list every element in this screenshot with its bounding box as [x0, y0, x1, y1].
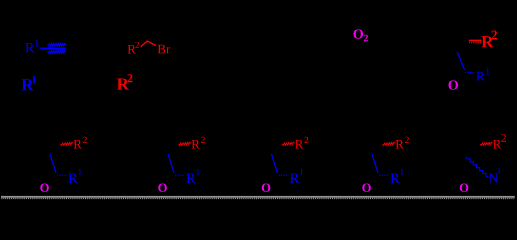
- bond: wavy C5-N (example 5): [466, 157, 488, 177]
- label R2 (example 4): [396, 140, 404, 149]
- label N (example 5): [489, 174, 498, 183]
- label Br: [158, 45, 166, 54]
- bond: hashed C-R2 (example 2): [179, 142, 192, 145]
- bond: hashed C-R2 (product): [469, 39, 482, 41]
- label R1 (example 4): [390, 174, 399, 183]
- atom O carbonyl (example 4): [362, 184, 371, 192]
- label R2 (example 1): [74, 140, 82, 149]
- bond: C5-N highlighted (example 3): [272, 154, 278, 173]
- bottom frame bar: [1, 196, 515, 198]
- atom O carbonyl (example 1): [40, 184, 49, 192]
- atom O carbonyl (product): [448, 80, 458, 89]
- atom O carbonyl (example 2): [158, 184, 167, 192]
- bond: N-R1 hash (example 1): [57, 174, 67, 176]
- bottom frame sawtooth: [1, 197, 514, 199]
- bond: hashed C-R2 (example 5): [480, 142, 493, 145]
- bond: alkyne upper squiggle: [47, 44, 65, 46]
- label O2 reagent: [353, 29, 363, 38]
- label R1 (example 2): [186, 174, 195, 183]
- bond: N-R1 hash (example 4): [379, 174, 389, 176]
- bond: alkyne middle line: [40, 47, 66, 49]
- bond: C5-N highlighted (example 1): [50, 154, 56, 173]
- label R2 bold legend: [117, 78, 129, 89]
- bond: alkyne lower squiggle: [47, 51, 65, 53]
- label R1 (example 3): [290, 174, 299, 183]
- bond: N-R1 hash (example 3): [279, 174, 289, 176]
- bond: hashed C-R2 (example 4): [383, 142, 396, 145]
- bond: C5-N highlighted (product): [457, 52, 464, 70]
- bond: hashed C-R2 (example 1): [61, 142, 74, 145]
- bond: hashed C-R2 (example 3): [282, 142, 295, 145]
- label R2 (example 2): [192, 140, 200, 149]
- atom O carbonyl (example 5): [460, 184, 469, 192]
- bond: C5-N highlighted (example 2): [168, 154, 174, 173]
- bond: CH2 caret: [141, 41, 156, 47]
- label R2 (bromide substituent): [128, 45, 136, 54]
- bond: N-R1 hash (example 2): [175, 174, 185, 176]
- label R2 (example 3): [295, 140, 303, 149]
- label R2 (example 5): [493, 140, 501, 149]
- bond: C5-N highlighted (example 4): [372, 154, 378, 173]
- atom O carbonyl (example 3): [262, 184, 271, 192]
- label R1 bold legend: [22, 79, 34, 90]
- label R1 (product): [476, 72, 484, 81]
- label R2 (product, bold): [481, 36, 493, 47]
- bond: N-R1 hash (product): [465, 71, 476, 74]
- label R1 (alkyne substituent): [25, 43, 34, 52]
- label R1 (example 1): [68, 174, 77, 183]
